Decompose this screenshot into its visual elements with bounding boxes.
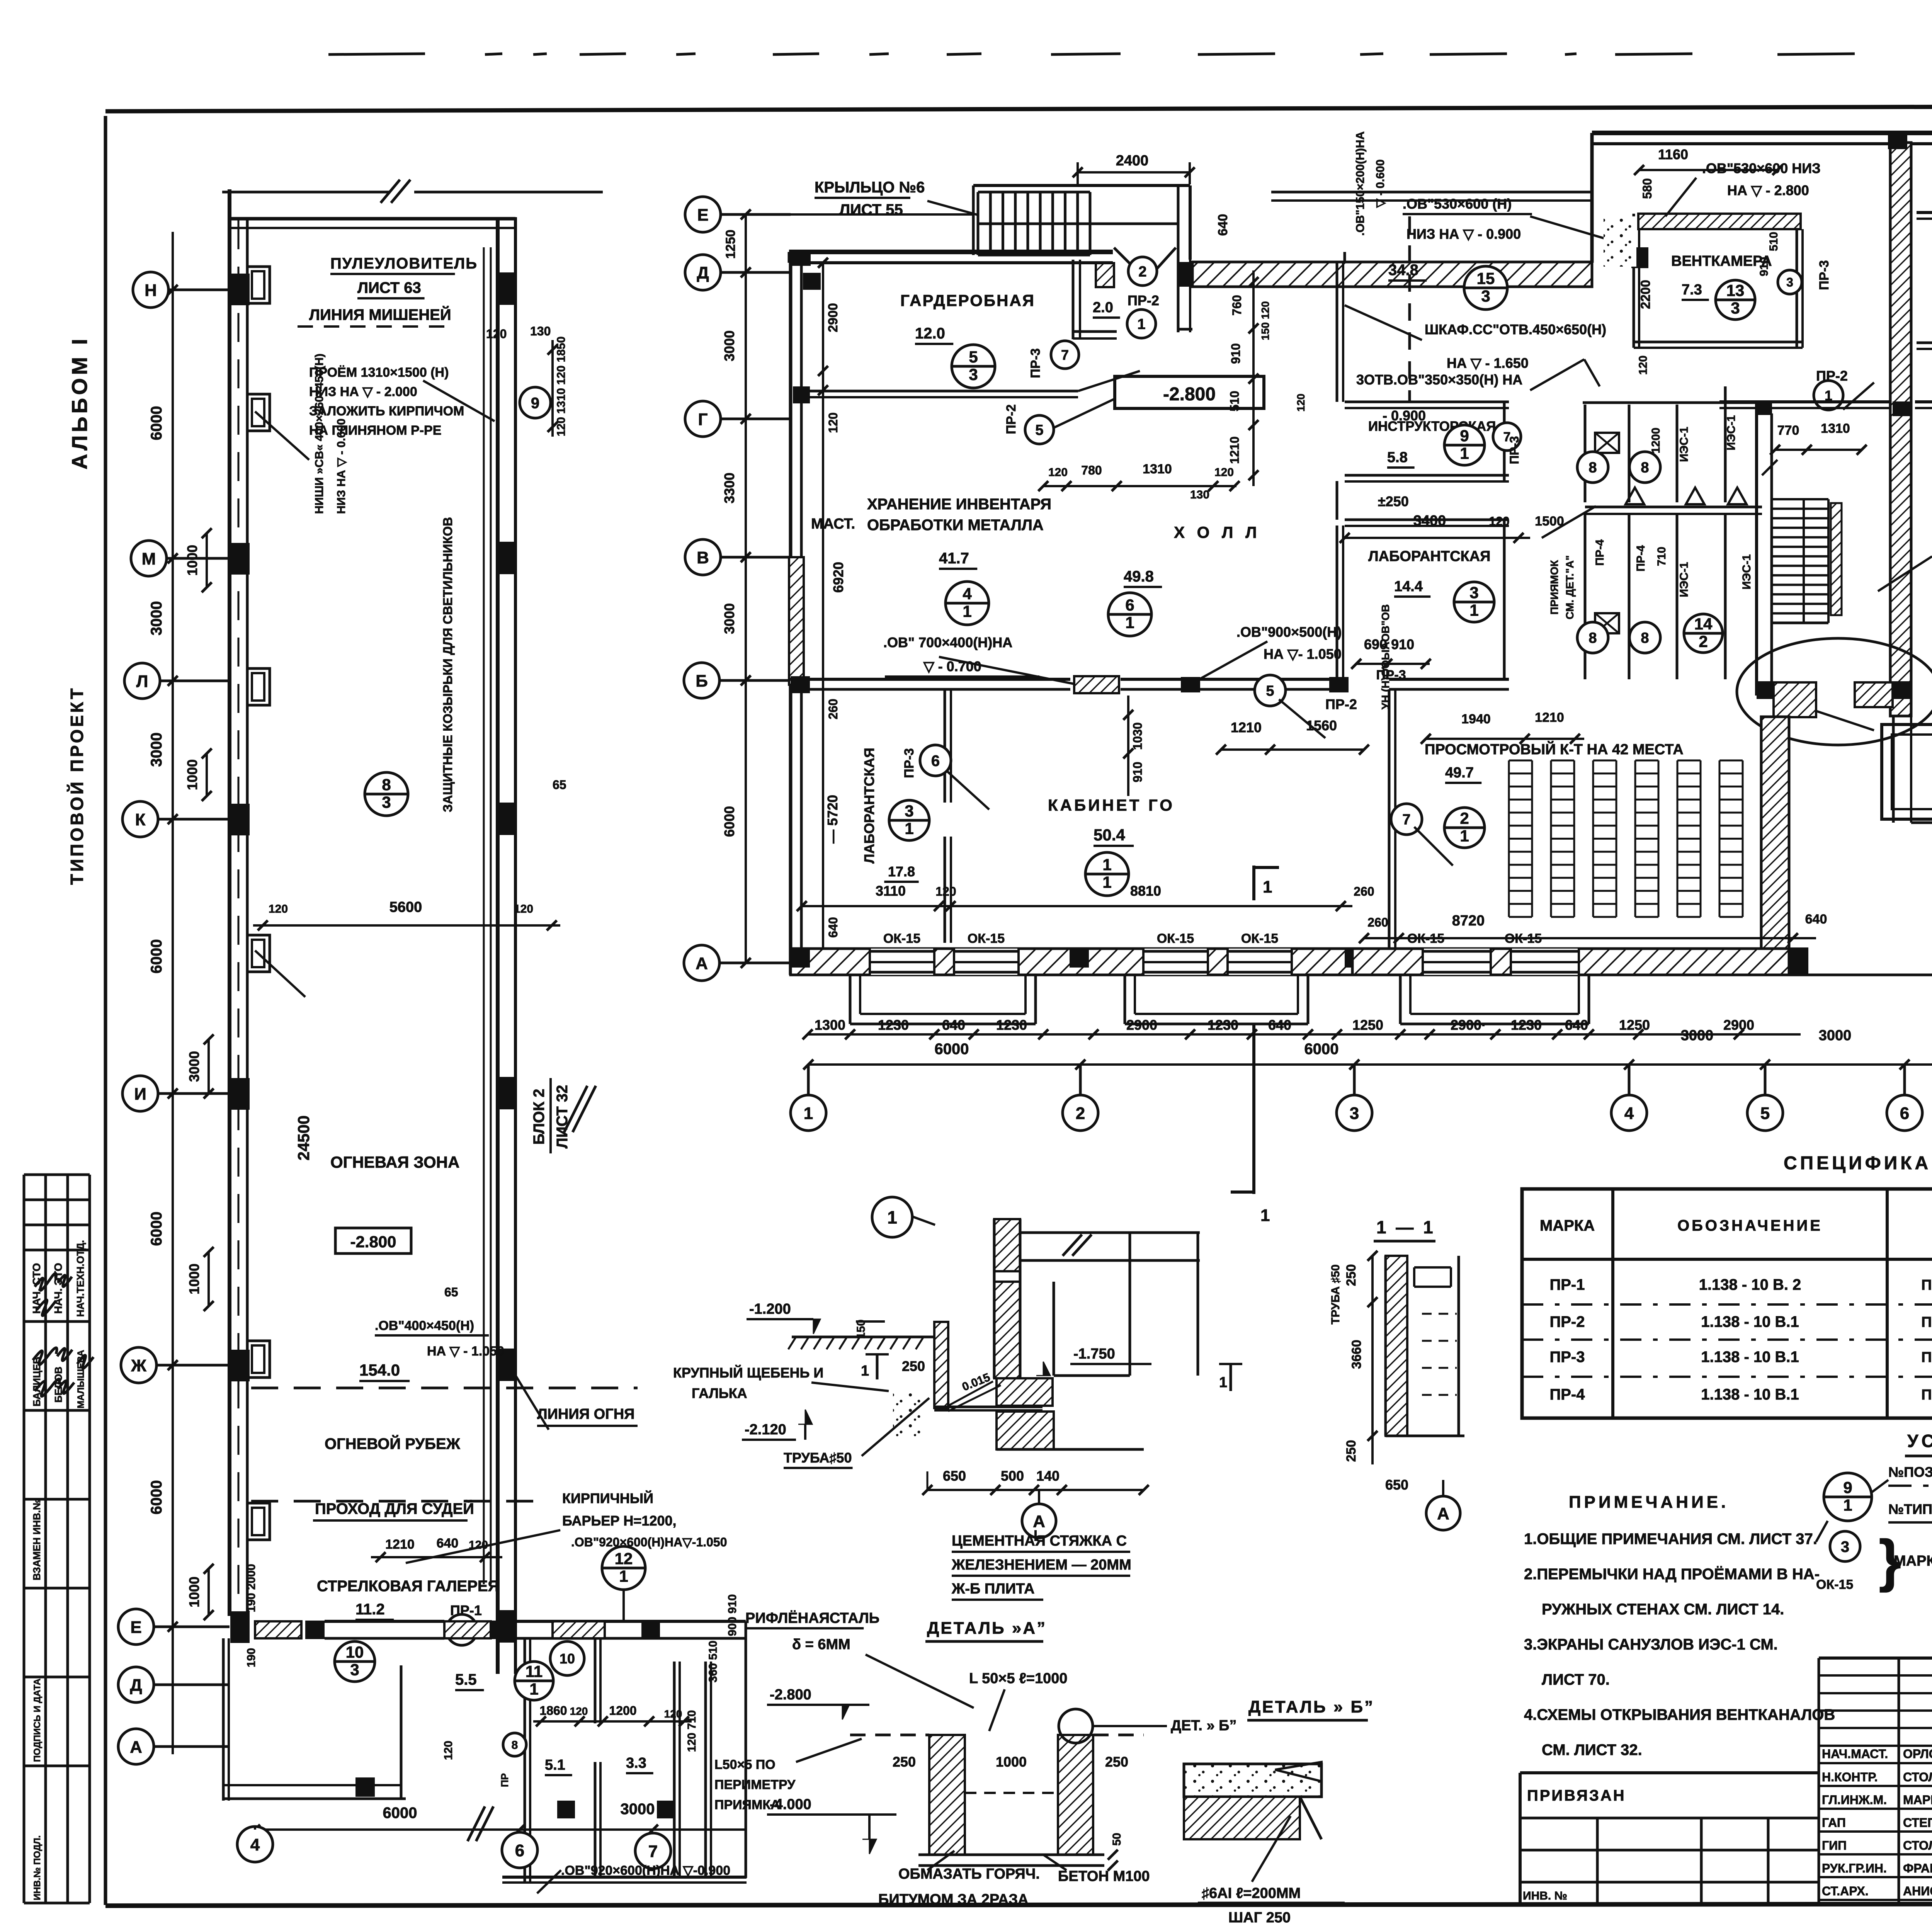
svg-text:150 120: 150 120 (1259, 301, 1271, 340)
top wall right part (1592, 131, 1932, 135)
sanuzly cluster (1584, 405, 1587, 502)
svg-text:ЛИСТ 32: ЛИСТ 32 (554, 1085, 571, 1149)
svg-text:АЛЬБОМ I: АЛЬБОМ I (67, 336, 92, 469)
ventkamera top-mid (1633, 214, 1635, 348)
svg-text:11.2: 11.2 (355, 1601, 385, 1618)
svg-text:ПР: ПР (499, 1773, 510, 1787)
svg-text:.ОВ" 700×400(Н)НА: .ОВ" 700×400(Н)НА (883, 634, 1012, 650)
svg-text:760: 760 (1230, 295, 1244, 315)
svg-text:3300: 3300 (721, 473, 737, 503)
svg-text:640: 640 (1216, 214, 1230, 236)
svg-text:120: 120 (269, 903, 288, 915)
svg-text:ГАЛЬКА: ГАЛЬКА (692, 1385, 747, 1401)
svg-text:СПЕЦИФИКАЦИЯ ПЕРЕМЫЧЕК: СПЕЦИФИКАЦИЯ ПЕРЕМЫЧЕК (1784, 1153, 1932, 1173)
svg-text:6000: 6000 (148, 1480, 165, 1515)
svg-text:ЛИНИЯ МИШЕНЕЙ: ЛИНИЯ МИШЕНЕЙ (309, 306, 451, 323)
svg-text:СТЕПАНОВ: СТЕПАНОВ (1903, 1816, 1932, 1830)
fixtures (1595, 433, 1619, 453)
svg-text:L50×5 ПО: L50×5 ПО (714, 1757, 776, 1772)
svg-text:1310: 1310 (1143, 462, 1172, 476)
svg-text:7: 7 (1061, 347, 1069, 363)
svg-text:130: 130 (1190, 488, 1209, 501)
svg-text:ПР-2: ПР-2 (1550, 1313, 1585, 1330)
svg-text:3: 3 (1481, 287, 1490, 305)
svg-text:6000: 6000 (148, 1212, 165, 1246)
svg-text:РИФЛЁНАЯСТАЛЬ: РИФЛЁНАЯСТАЛЬ (745, 1610, 879, 1626)
svg-text:5600: 5600 (389, 899, 422, 915)
svg-text:ПРИЯМОК: ПРИЯМОК (1548, 560, 1560, 614)
svg-text:780: 780 (1081, 463, 1102, 477)
svg-text:±250: ±250 (1378, 493, 1409, 509)
room bottom wall right part (1917, 342, 1932, 344)
svg-text:2.ПЕРЕМЫЧКИ НАД ПРОЁМАМИ В НА-: 2.ПЕРЕМЫЧКИ НАД ПРОЁМАМИ В НА- (1524, 1566, 1820, 1583)
svg-text:ПЕРЕМЫЧКА 2ПР5-16.38.14: ПЕРЕМЫЧКА 2ПР5-16.38.14 (1921, 1277, 1932, 1293)
svg-text:3000: 3000 (148, 601, 165, 636)
fire lines (251, 1387, 638, 1389)
instruktorskaya (1345, 401, 1509, 403)
hall right wall (1336, 263, 1338, 402)
svg-text:ПР-3: ПР-3 (902, 748, 917, 778)
svg-text:1: 1 (529, 1680, 538, 1698)
svg-text:ОГНЕВАЯ ЗОНА: ОГНЕВАЯ ЗОНА (330, 1153, 459, 1171)
svg-text:А: А (130, 1738, 142, 1757)
svg-text:КАБИНЕТ ГО: КАБИНЕТ ГО (1048, 796, 1175, 814)
svg-text:250: 250 (1344, 1264, 1359, 1286)
svg-text:СТОЛЯРОВА: СТОЛЯРОВА (1903, 1838, 1932, 1852)
svg-text:ПРИВЯЗАН: ПРИВЯЗАН (1527, 1787, 1626, 1804)
svg-text:▽ - 0.600: ▽ - 0.600 (1374, 160, 1387, 208)
circle A detal (1022, 1504, 1056, 1538)
svg-text:650: 650 (1385, 1477, 1408, 1493)
svg-text:НИЗ НА ▽ - 0.600: НИЗ НА ▽ - 0.600 (335, 418, 348, 514)
svg-text:ПР-2: ПР-2 (1325, 696, 1357, 712)
svg-text:ПРОЁМ 1310×1500 (Н): ПРОЁМ 1310×1500 (Н) (309, 365, 449, 380)
dims under garderob wall (1043, 485, 1236, 487)
svg-text:1230: 1230 (1511, 1017, 1542, 1033)
svg-text:250: 250 (902, 1358, 925, 1374)
main plan left dim chain (745, 214, 747, 963)
svg-text:3: 3 (1786, 276, 1793, 289)
svg-text:34.8: 34.8 (1388, 262, 1418, 279)
detal B drawing (1184, 1764, 1321, 1797)
svg-text:ОБМАЗАТЬ ГОРЯЧ.: ОБМАЗАТЬ ГОРЯЧ. (898, 1866, 1040, 1882)
B axis wall (789, 678, 1070, 681)
svg-text:1: 1 (887, 1207, 897, 1228)
svg-text:ОК-15: ОК-15 (883, 931, 920, 946)
svg-text:БАЛИЦЕВ: БАЛИЦЕВ (31, 1357, 43, 1406)
-2.800 box (1115, 376, 1264, 408)
svg-text:Л: Л (136, 672, 148, 691)
svg-text:ХРАНЕНИЕ ИНВЕНТАРЯ: ХРАНЕНИЕ ИНВЕНТАРЯ (867, 496, 1051, 513)
svg-text:АНИСИМОВА: АНИСИМОВА (1903, 1884, 1932, 1898)
fragment ellipse left (1737, 638, 1932, 745)
svg-text:1: 1 (963, 602, 971, 621)
svg-text:14.4: 14.4 (1394, 578, 1423, 595)
svg-text:А: А (1437, 1504, 1449, 1523)
svg-text:7: 7 (1402, 812, 1410, 828)
svg-text:6000: 6000 (383, 1804, 417, 1821)
svg-text:УН (Н)ООЫАОВ"ОВ: УН (Н)ООЫАОВ"ОВ (1379, 604, 1391, 709)
top wall axis D (left part) (789, 250, 1113, 254)
triangles (1626, 488, 1644, 504)
svg-text:НА ▽- 1.050: НА ▽- 1.050 (1264, 646, 1342, 662)
svg-text:ПР-4: ПР-4 (1550, 1386, 1585, 1403)
dim row under plan (808, 1033, 1321, 1036)
svg-text:МАСТ.: МАСТ. (811, 516, 855, 532)
svg-text:А: А (696, 954, 708, 973)
seats rows (1509, 760, 1532, 762)
svg-text:50.4: 50.4 (1094, 826, 1125, 844)
svg-text:10: 10 (346, 1643, 364, 1661)
svg-text:24500: 24500 (294, 1116, 313, 1161)
bottom axis dim line (255, 1828, 746, 1831)
svg-text:910: 910 (1758, 257, 1770, 276)
svg-text:ПЕРЕМЫЧКА 1ПР2-15.12.14: ПЕРЕМЫЧКА 1ПР2-15.12.14 (1921, 1314, 1932, 1330)
svg-text:НИЗ НА ▽ - 0.900: НИЗ НА ▽ - 0.900 (1406, 226, 1521, 242)
left strip axis circles (133, 272, 168, 308)
svg-text:.ОВ"920×600(Н)НА ▽-0.900: .ОВ"920×600(Н)НА ▽-0.900 (561, 1863, 730, 1878)
hatched segment of left wall (789, 557, 804, 685)
svg-text:120: 120 (514, 903, 533, 915)
svg-text:710: 710 (1655, 547, 1668, 566)
svg-text:№ТИПА ПОЛА В ЭКСПЛИКАЦИИ ПОЛОВ: №ТИПА ПОЛА В ЭКСПЛИКАЦИИ ПОЛОВ — ЛИСТ 45 (1888, 1501, 1932, 1517)
svg-text:6: 6 (1900, 1104, 1909, 1123)
svg-text:1000: 1000 (184, 759, 200, 790)
svg-text:ОБОЗНАЧЕНИЕ: ОБОЗНАЧЕНИЕ (1677, 1217, 1823, 1234)
svg-text:ПЕРЕМЫЧКА 1ЯР1-10.12.14: ПЕРЕМЫЧКА 1ЯР1-10.12.14 (1921, 1387, 1932, 1403)
svg-text:ЗАЩИТНЫЕ КОЗЫРЬКИ ДЛЯ СВЕТИЛЬН: ЗАЩИТНЫЕ КОЗЫРЬКИ ДЛЯ СВЕТИЛЬНИКОВ (440, 517, 455, 812)
svg-text:МАРГУЛЕЦ: МАРГУЛЕЦ (1903, 1793, 1932, 1807)
svg-text:ЦЕМЕНТНАЯ СТЯЖКА С: ЦЕМЕНТНАЯ СТЯЖКА С (952, 1533, 1127, 1549)
svg-text:Н: Н (145, 281, 157, 300)
svg-text:ОБРАБОТКИ МЕТАЛЛА: ОБРАБОТКИ МЕТАЛЛА (867, 517, 1044, 534)
svg-text:1000: 1000 (996, 1754, 1027, 1770)
svg-text:1: 1 (1460, 444, 1469, 463)
left strip vertical dim chain A (172, 232, 174, 1754)
svg-text:КРЫЛЬЦО №6: КРЫЛЬЦО №6 (815, 179, 925, 196)
svg-text:СМ. ДЕТ."А": СМ. ДЕТ."А" (1564, 555, 1576, 619)
svg-text:ПЕРЕМЫЧКА 1ПР1-12.12.14: ПЕРЕМЫЧКА 1ПР1-12.12.14 (1921, 1349, 1932, 1366)
svg-text:1210: 1210 (1535, 710, 1564, 725)
svg-text:1200: 1200 (1650, 428, 1662, 454)
svg-text:ПРИМЕЧАНИЕ.: ПРИМЕЧАНИЕ. (1569, 1493, 1729, 1512)
svg-text:2200: 2200 (1638, 280, 1653, 309)
1-1 drawing (1384, 1256, 1387, 1436)
svg-text:13: 13 (1726, 281, 1745, 299)
svg-text:ИЭС-1: ИЭС-1 (1740, 554, 1753, 589)
svg-text:10: 10 (560, 1651, 575, 1667)
left stamp table (24, 1173, 90, 1176)
svg-text:ПР-4: ПР-4 (1634, 545, 1647, 572)
svg-text:1: 1 (619, 1567, 628, 1585)
svg-text:4: 4 (1624, 1104, 1634, 1123)
svg-text:1.138 - 10 В.1: 1.138 - 10 В.1 (1701, 1349, 1799, 1366)
svg-text:1: 1 (1219, 1374, 1227, 1391)
svg-text:3000: 3000 (186, 1051, 202, 1082)
legend 9/1 (1824, 1473, 1872, 1521)
svg-text:2900: 2900 (826, 303, 840, 332)
svg-text:ТИПОВОЙ ПРОЕКТ: ТИПОВОЙ ПРОЕКТ (67, 686, 87, 885)
svg-text:640: 640 (1565, 1017, 1588, 1033)
svg-text:1: 1 (905, 820, 913, 838)
svg-text:-2.120: -2.120 (745, 1422, 786, 1438)
main axis dim line (808, 1063, 1932, 1066)
svg-text:640: 640 (1805, 912, 1827, 927)
svg-text:♯6АІ ℓ=200ММ: ♯6АІ ℓ=200ММ (1202, 1885, 1301, 1901)
svg-text:ДЕТ. » Б”: ДЕТ. » Б” (1171, 1718, 1236, 1734)
hatched exterior wall band right of vestibule (1192, 262, 1592, 287)
zal windows (1352, 949, 1789, 975)
svg-text:1160: 1160 (1658, 146, 1688, 162)
svg-text:4: 4 (963, 585, 972, 603)
svg-text:1.138 - 10 В.1: 1.138 - 10 В.1 (1701, 1386, 1799, 1403)
svg-text:1300: 1300 (815, 1017, 845, 1033)
svg-text:9: 9 (531, 395, 539, 412)
svg-text:154.0: 154.0 (359, 1361, 400, 1379)
svg-text:3ОТВ.ОВ"350×350(Н) НА: 3ОТВ.ОВ"350×350(Н) НА (1356, 372, 1522, 388)
svg-text:ПРОСМОТРОВЫЙ К-Т НА 42 МЕСТА: ПРОСМОТРОВЫЙ К-Т НА 42 МЕСТА (1425, 740, 1684, 758)
svg-text:.ОВ"900×500(Н): .ОВ"900×500(Н) (1236, 624, 1342, 640)
svg-text:50: 50 (1111, 1833, 1123, 1845)
svg-text:ДЕТАЛЬ » Б”: ДЕТАЛЬ » Б” (1248, 1697, 1374, 1716)
axis number circles (807, 1065, 810, 1095)
svg-text:1.ОБЩИЕ ПРИМЕЧАНИЯ СМ. ЛИСТ 3: 1.ОБЩИЕ ПРИМЕЧАНИЯ СМ. ЛИСТ 37. (1524, 1531, 1817, 1548)
svg-text:L 50×5 ℓ=1000: L 50×5 ℓ=1000 (969, 1670, 1068, 1687)
svg-text:580: 580 (1640, 178, 1654, 199)
svg-text:ОК-15: ОК-15 (1157, 931, 1194, 946)
svg-text:-2.800: -2.800 (350, 1233, 396, 1251)
svg-text:900 910: 900 910 (726, 1594, 739, 1636)
kamera kholodnogo vozdukha (1882, 724, 1932, 819)
svg-text:УСЛОВНЫЕ ОБОЗНАЧЕНИЯ: УСЛОВНЫЕ ОБОЗНАЧЕНИЯ (1907, 1431, 1932, 1451)
bottom left small room (222, 1638, 225, 1801)
svg-text:Н.КОНТР.: Н.КОНТР. (1822, 1770, 1878, 1784)
columns on top wall right part (1888, 131, 1907, 149)
svg-text:910: 910 (1229, 343, 1243, 364)
svg-text:120: 120 (442, 1741, 455, 1760)
svg-text:8: 8 (512, 1739, 518, 1752)
wall from stair to kamera (1892, 716, 1895, 823)
left strip: left wall (228, 189, 231, 1616)
vestibule left wall (1072, 260, 1075, 339)
svg-text:1: 1 (1460, 827, 1469, 845)
svg-text:910: 910 (1131, 762, 1145, 782)
svg-text:1: 1 (1125, 614, 1134, 632)
svg-text:— 5720: — 5720 (825, 795, 840, 844)
svg-text:ДЕТАЛЬ »А”: ДЕТАЛЬ »А” (927, 1619, 1047, 1638)
svg-text:КИРПИЧНЫЙ: КИРПИЧНЫЙ (562, 1490, 653, 1506)
svg-text:.ОВ"400×450(Н): .ОВ"400×450(Н) (375, 1318, 474, 1333)
svg-text:НАЧ. СТО: НАЧ. СТО (31, 1263, 43, 1314)
left strip niches (247, 267, 270, 303)
svg-text:6: 6 (1125, 596, 1134, 614)
svg-text:3110: 3110 (876, 883, 906, 899)
svg-text:1: 1 (1137, 316, 1145, 333)
svg-text:3: 3 (905, 802, 913, 820)
legend 3 circle (1830, 1531, 1860, 1561)
svg-text:▽ - 0.700: ▽ - 0.700 (923, 658, 981, 674)
svg-text:510: 510 (1767, 232, 1780, 251)
svg-text:3000: 3000 (721, 330, 737, 361)
bottom exterior wall (axis A) hatched (791, 949, 1789, 975)
svg-text:НАЧ.МАСТ.: НАЧ.МАСТ. (1822, 1747, 1888, 1761)
spec table grid (1522, 1189, 1932, 1418)
thick hatched wall right of hall (1761, 717, 1789, 949)
svg-text:ПР-2: ПР-2 (1004, 404, 1019, 434)
svg-text:Д: Д (697, 264, 709, 282)
svg-text:ПЕРИМЕТРУ: ПЕРИМЕТРУ (714, 1777, 796, 1792)
svg-text:640: 640 (1268, 1017, 1291, 1033)
svg-text:17.8: 17.8 (888, 864, 915, 879)
left strip wall columns (black) (230, 274, 250, 305)
svg-text:15: 15 (1477, 269, 1495, 287)
svg-text:ИЭС-1: ИЭС-1 (1678, 562, 1690, 597)
svg-text:ИНВ. №: ИНВ. № (1523, 1889, 1567, 1902)
svg-text:640: 640 (437, 1536, 459, 1551)
svg-text:ПР-3: ПР-3 (1507, 436, 1521, 464)
svg-text:1.138 - 10 В. 2: 1.138 - 10 В. 2 (1699, 1276, 1801, 1293)
svg-text:-2.800: -2.800 (1163, 384, 1216, 405)
svg-text:41.7: 41.7 (939, 550, 969, 567)
svg-text:ЛАБОРАНТСКАЯ: ЛАБОРАНТСКАЯ (861, 748, 877, 864)
svg-text:ГАП: ГАП (1822, 1816, 1846, 1830)
detal A: well wall (934, 1322, 948, 1408)
svg-text:3000: 3000 (621, 1801, 655, 1818)
wall below 34.8 room (1344, 252, 1346, 263)
title block staff table (1818, 1658, 1820, 1903)
section mark 1 top (1252, 866, 1255, 900)
prosmotrovy zal (1389, 678, 1509, 681)
dims 3110/8810 row (802, 905, 1352, 907)
svg-text:НАЧ.ТЕХН.ОТД.: НАЧ.ТЕХН.ОТД. (75, 1240, 86, 1317)
svg-text:1250: 1250 (1352, 1017, 1383, 1033)
svg-text:6: 6 (931, 752, 940, 769)
left strip: canopy line (483, 247, 485, 1584)
svg-text:1310: 1310 (1821, 421, 1850, 436)
svg-text:ЛИСТ 70.: ЛИСТ 70. (1542, 1671, 1610, 1688)
wall y1040 right of stair (1915, 400, 1932, 403)
svg-text:И: И (134, 1085, 146, 1104)
svg-text:1030: 1030 (1131, 722, 1145, 750)
dim 2400 (1078, 171, 1190, 173)
svg-text:НА ГЛИНЯНОМ Р-РЕ: НА ГЛИНЯНОМ Р-РЕ (309, 423, 441, 438)
svg-text:2.0: 2.0 (1093, 299, 1113, 316)
svg-text:8: 8 (1641, 460, 1649, 476)
svg-text:ЛАБОРАНТСКАЯ: ЛАБОРАНТСКАЯ (1368, 548, 1490, 565)
svg-text:3: 3 (350, 1661, 359, 1679)
svg-text:14: 14 (1694, 615, 1713, 633)
detail callout circle 1 (872, 1197, 912, 1237)
svg-text:ФРАНЧЕНКО: ФРАНЧЕНКО (1903, 1861, 1932, 1875)
svg-text:8720: 8720 (1452, 913, 1485, 929)
svg-text:БЕТОН М100: БЕТОН М100 (1058, 1868, 1150, 1884)
svg-text:1250: 1250 (1619, 1017, 1650, 1033)
svg-text:3000: 3000 (1819, 1027, 1852, 1044)
svg-text:ПР-3: ПР-3 (1817, 260, 1832, 290)
svg-text:-2.800: -2.800 (770, 1687, 811, 1703)
svg-text:120: 120 (826, 412, 840, 433)
svg-text:.ОВ"150×200(Н)НА: .ОВ"150×200(Н)НА (1354, 131, 1367, 236)
sanuz circles 8 (1577, 452, 1608, 483)
detal A: floor slab top lines (1020, 1231, 1200, 1234)
svg-text:ПР-1: ПР-1 (1550, 1276, 1585, 1293)
svg-text:СТРЕЛКОВАЯ ГАЛЕРЕЯ: СТРЕЛКОВАЯ ГАЛЕРЕЯ (317, 1578, 499, 1595)
svg-text:ЛИСТ 63: ЛИСТ 63 (357, 279, 421, 296)
svg-text:5: 5 (1035, 422, 1043, 439)
svg-text:3: 3 (1469, 583, 1478, 602)
svg-text:12.0: 12.0 (915, 325, 945, 342)
svg-text:БЛОК 2: БЛОК 2 (531, 1089, 548, 1145)
svg-text:ПРОХОД ДЛЯ СУДЕЙ: ПРОХОД ДЛЯ СУДЕЙ (315, 1500, 474, 1517)
svg-text:140: 140 (1036, 1468, 1060, 1484)
svg-text:1: 1 (1843, 1496, 1852, 1514)
svg-text:-1.200: -1.200 (749, 1301, 791, 1317)
svg-text:1000: 1000 (184, 545, 200, 576)
svg-text:5: 5 (1266, 683, 1274, 699)
svg-text:ОРЛОВ: ОРЛОВ (1903, 1747, 1932, 1761)
svg-text:ШКАФ.СС"ОТВ.450×650(Н): ШКАФ.СС"ОТВ.450×650(Н) (1425, 321, 1606, 337)
svg-text:120: 120 (664, 1708, 682, 1720)
svg-text:3.3: 3.3 (626, 1755, 646, 1771)
svg-text:Ж: Ж (131, 1356, 146, 1375)
svg-text:Г: Г (698, 410, 708, 429)
svg-text:650: 650 (943, 1468, 966, 1484)
svg-text:770: 770 (1777, 423, 1799, 438)
laborantskaya mid (1345, 519, 1509, 521)
svg-text:А: А (1033, 1512, 1045, 1531)
left strip: right wall (496, 217, 500, 1674)
svg-text:ОК-15: ОК-15 (1407, 931, 1444, 946)
svg-text:640: 640 (942, 1017, 965, 1033)
section mark 1 bottom (1252, 1024, 1255, 1194)
svg-text:ГЛ.ИНЖ.М.: ГЛ.ИНЖ.М. (1822, 1793, 1887, 1807)
svg-text:ВЗАМЕН ИНВ.№: ВЗАМЕН ИНВ.№ (31, 1499, 43, 1580)
svg-text:δ = 6ММ: δ = 6ММ (792, 1636, 850, 1653)
svg-text:.ОВ"530×600 (Н): .ОВ"530×600 (Н) (1403, 196, 1512, 212)
svg-text:ВЕНТКАМЕРА: ВЕНТКАМЕРА (1671, 253, 1772, 269)
svg-text:5: 5 (969, 348, 978, 366)
svg-text:ОК-15: ОК-15 (1816, 1577, 1853, 1592)
svg-text:.ОВ"530×600 НИЗ: .ОВ"530×600 НИЗ (1702, 160, 1821, 176)
svg-text:8: 8 (382, 776, 391, 794)
svg-text:120: 120 (570, 1705, 588, 1717)
5600 dim (253, 924, 560, 927)
strelkovaya galereya (371, 1556, 502, 1558)
svg-text:РУК.ГР.ИН.: РУК.ГР.ИН. (1822, 1861, 1887, 1875)
svg-text:ГИП: ГИП (1822, 1838, 1847, 1852)
svg-text:2900: 2900 (1723, 1017, 1754, 1033)
-2.800 box (335, 1228, 411, 1253)
svg-text:8: 8 (1588, 460, 1597, 476)
svg-text:Е: Е (697, 206, 708, 224)
svg-text:11: 11 (526, 1662, 543, 1680)
svg-text:3000: 3000 (1681, 1027, 1714, 1044)
svg-text:ПР-3: ПР-3 (1550, 1349, 1585, 1366)
svg-text:НАЧ. ЭТО: НАЧ. ЭТО (52, 1263, 64, 1314)
svg-text:3660: 3660 (1349, 1340, 1364, 1369)
svg-text:6000: 6000 (721, 806, 737, 837)
svg-text:640: 640 (826, 917, 840, 937)
svg-text:8810: 8810 (1130, 883, 1161, 899)
svg-text:1230: 1230 (1207, 1017, 1238, 1033)
sheet top edge scan marks (328, 54, 425, 54)
svg-text:2: 2 (1138, 264, 1146, 280)
svg-text:6000: 6000 (148, 939, 165, 974)
svg-text:БЕЛОВ: БЕЛОВ (53, 1367, 64, 1403)
svg-text:РУЖНЫХ СТЕНАХ СМ. ЛИСТ 14.: РУЖНЫХ СТЕНАХ СМ. ЛИСТ 14. (1542, 1601, 1784, 1618)
svg-text:1200: 1200 (609, 1704, 636, 1718)
svg-text:49.8: 49.8 (1124, 568, 1154, 585)
